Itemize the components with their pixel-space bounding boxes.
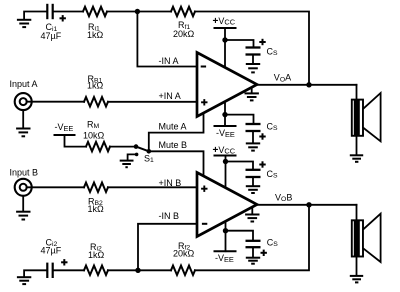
svg-text:-VEE: -VEE — [215, 253, 234, 264]
wire — [226, 162, 254, 169]
capacitor Cs (A-) — [246, 124, 266, 140]
wire output VoB — [257, 204, 357, 206]
svg-text:20kΩ: 20kΩ — [173, 248, 195, 258]
wire (-IN B) — [138, 224, 196, 270]
pin + (U1A) — [201, 99, 207, 105]
wire — [65, 135, 87, 147]
wire (feedback A to output) — [195, 12, 309, 85]
ground (bottom-left, input cap B) — [17, 270, 46, 284]
node VCC B — [223, 159, 228, 164]
capacitor Ci2 — [47, 259, 67, 278]
ground (input A) — [16, 110, 30, 136]
svg-text:-IN A: -IN A — [159, 56, 179, 66]
svg-text:Mute B: Mute B — [159, 140, 188, 150]
pin + (U1B) — [201, 186, 207, 192]
node junction B bottom — [135, 268, 140, 273]
pin - (U1B) — [202, 223, 207, 225]
capacitor Cs (B-) — [246, 241, 267, 256]
node VoA — [306, 82, 311, 87]
ground (Cs B+) — [246, 178, 260, 193]
wire — [225, 115, 254, 123]
svg-text:47µF: 47µF — [41, 31, 62, 41]
svg-text:+IN B: +IN B — [159, 178, 182, 188]
wire — [225, 40, 254, 46]
node VCC A — [222, 37, 227, 42]
connector Input B — [15, 179, 32, 196]
resistor Ri2 — [84, 266, 108, 275]
svg-text:10kΩ: 10kΩ — [83, 130, 105, 140]
ground (switch) — [120, 154, 137, 167]
ground (input B) — [16, 196, 30, 220]
wire — [224, 28, 226, 67]
wire (+IN B) — [108, 186, 196, 188]
resistor RM — [86, 142, 110, 151]
resistor RB1 — [84, 97, 108, 106]
svg-text:+VCC: +VCC — [213, 16, 236, 27]
ground (Cs A-) — [246, 132, 260, 151]
wire (-IN A) — [137, 12, 196, 67]
ground (U1B tip) — [245, 208, 259, 222]
ground (speaker B) — [350, 257, 363, 283]
svg-text:-VEE: -VEE — [216, 128, 235, 139]
switch S1 — [134, 144, 151, 156]
svg-text:Mute A: Mute A — [159, 121, 187, 131]
svg-text:1kΩ: 1kΩ — [88, 204, 105, 214]
power -VEE (mute supply) — [54, 134, 76, 136]
power -VEE (A) — [214, 125, 237, 127]
ground (U1A tip) — [245, 88, 259, 101]
wire output VoA — [257, 84, 357, 86]
wire — [107, 11, 171, 13]
wire — [54, 269, 84, 271]
speaker A — [352, 85, 381, 142]
wire — [225, 156, 227, 187]
wire — [54, 11, 83, 13]
resistor Rf2 — [171, 266, 195, 275]
op-amp U1A — [197, 53, 257, 117]
svg-text:+IN A: +IN A — [159, 91, 181, 101]
ground (Cs B-) — [246, 248, 260, 263]
node VEE B — [223, 228, 228, 233]
resistor RB2 — [84, 183, 108, 192]
wire (feedback B to output) — [195, 205, 309, 270]
ground (speaker A) — [350, 136, 363, 162]
wire — [27, 101, 84, 103]
node VEE A — [222, 112, 227, 117]
svg-text:-IN B: -IN B — [159, 211, 180, 221]
svg-text:+VCC: +VCC — [213, 145, 236, 156]
capacitor Ci1 — [47, 4, 66, 22]
wire — [226, 231, 254, 240]
svg-text:Input B: Input B — [10, 168, 39, 178]
svg-text:20kΩ: 20kΩ — [173, 29, 195, 39]
resistor Rf1 — [171, 7, 195, 16]
pin - (U1A) — [201, 66, 206, 68]
svg-text:1kΩ: 1kΩ — [87, 30, 104, 40]
capacitor Cs (A+) — [246, 39, 266, 55]
svg-text:Input A: Input A — [10, 79, 38, 89]
wire Mute B — [149, 151, 204, 175]
speaker B — [352, 205, 381, 262]
wire (+IN A) — [108, 101, 196, 103]
resistor Ri1 — [83, 7, 107, 16]
power +VCC (B) — [214, 155, 237, 157]
svg-text:1kΩ: 1kΩ — [87, 81, 104, 91]
op-amp U1B — [197, 173, 257, 237]
wire — [110, 146, 136, 148]
node junction A top — [135, 9, 140, 14]
node VoB — [306, 202, 311, 207]
power -VEE (B) — [214, 250, 237, 252]
power +VCC (A) — [214, 27, 237, 29]
wire — [225, 222, 227, 251]
wire — [27, 186, 84, 188]
wire — [108, 269, 171, 271]
capacitor Cs (B+) — [246, 161, 266, 177]
svg-text:-VEE: -VEE — [55, 122, 74, 133]
ground (top-left, input cap A) — [17, 12, 46, 28]
connector Input A — [15, 93, 32, 110]
wire Mute A — [149, 113, 204, 151]
svg-text:1kΩ: 1kΩ — [88, 250, 105, 260]
wire — [224, 102, 226, 126]
svg-text:47µF: 47µF — [41, 245, 62, 255]
ground (Cs A+) — [246, 56, 260, 73]
